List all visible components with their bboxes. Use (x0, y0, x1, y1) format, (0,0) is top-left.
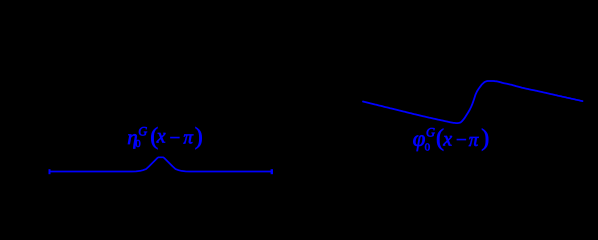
svg-text:G: G (138, 124, 147, 138)
left bump curve eta (50, 157, 273, 171)
right step curve phi (363, 81, 583, 123)
svg-text:G: G (426, 126, 435, 140)
svg-text:0: 0 (425, 142, 431, 154)
wire left end tick (49, 169, 51, 174)
svg-text:): ) (481, 126, 489, 152)
svg-text:−: − (456, 130, 467, 151)
node label eta (127, 124, 203, 150)
svg-text:π: π (183, 127, 193, 148)
svg-text:): ) (195, 124, 203, 150)
wire right end tick (271, 169, 273, 174)
svg-text:0: 0 (135, 139, 140, 150)
svg-text:−: − (170, 128, 181, 149)
svg-text:x: x (156, 126, 166, 148)
node label phi (413, 126, 490, 154)
svg-text:π: π (469, 130, 479, 151)
svg-text:x: x (442, 129, 452, 151)
